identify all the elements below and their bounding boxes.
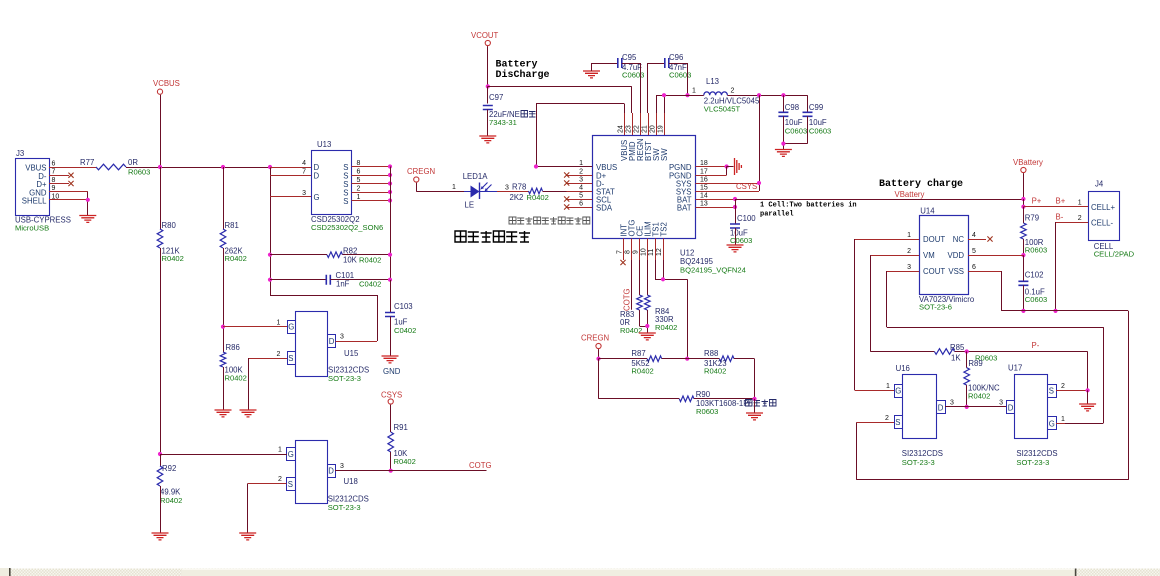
svg-text:R87: R87 <box>631 349 645 358</box>
U14 pin 4 NC no-connect <box>968 239 986 241</box>
svg-text:B+: B+ <box>1056 197 1066 206</box>
svg-text:CELL+: CELL+ <box>1091 203 1116 212</box>
wire U15 drain link <box>270 295 377 297</box>
svg-text:VCBUS: VCBUS <box>153 79 180 88</box>
U12 pin 5 SCL no-connect <box>567 199 593 201</box>
ground R88 R90 <box>746 413 763 420</box>
wire R77 to VCBUS rail <box>126 167 270 169</box>
wire R85 to P- corner <box>955 351 1088 353</box>
wire rail R81 <box>223 167 225 229</box>
svg-text:R0402: R0402 <box>527 193 549 202</box>
scrollbar track <box>0 569 1160 576</box>
wire VDD node to C102 <box>1023 255 1025 281</box>
wire VSS net loop <box>1001 271 1003 311</box>
wire L13 to output node <box>727 95 807 97</box>
junction VBUS pin1 <box>534 164 538 168</box>
junction U13 input <box>268 165 272 169</box>
wire U18 source to ground <box>247 484 249 534</box>
svg-text:13: 13 <box>700 201 708 208</box>
svg-text:2: 2 <box>1078 215 1082 222</box>
svg-text:6: 6 <box>52 161 56 168</box>
svg-text:9: 9 <box>52 185 56 192</box>
wire C97 to ground <box>487 110 489 137</box>
svg-text:R79: R79 <box>1025 214 1039 223</box>
svg-text:S: S <box>288 354 293 363</box>
U12 pin 6 SDA no-connect <box>567 207 593 209</box>
J3 pin 9 GND <box>49 191 88 193</box>
wire cell node to R79 <box>1023 207 1025 223</box>
junction R89 drain net <box>965 405 969 409</box>
svg-text:C0603: C0603 <box>730 236 752 245</box>
svg-text:CSD25302Q2_SON6: CSD25302Q2_SON6 <box>311 223 383 232</box>
wire CE ILIM pins down <box>639 260 641 295</box>
note charge status indicator chinese <box>455 231 466 242</box>
svg-text:3: 3 <box>505 185 509 192</box>
svg-text:1nF: 1nF <box>336 280 350 289</box>
svg-text:MicroUSB: MicroUSB <box>15 224 49 233</box>
svg-text:10: 10 <box>52 193 60 200</box>
svg-text:C0603: C0603 <box>809 127 831 136</box>
wire VBattery stem <box>1023 173 1025 199</box>
wire gnd rail down <box>754 399 756 413</box>
junctions U13 source bus <box>388 164 392 168</box>
svg-text:R0402: R0402 <box>631 367 653 376</box>
svg-text:16: 16 <box>700 177 708 184</box>
U18 pin 2 S <box>248 483 287 485</box>
wire VM to R85 <box>870 255 872 351</box>
svg-text:Battery charge: Battery charge <box>879 178 963 190</box>
svg-text:8: 8 <box>52 177 56 184</box>
junction C96 SW <box>685 93 689 97</box>
svg-text:10: 10 <box>641 248 648 256</box>
svg-text:21: 21 <box>642 125 649 133</box>
U17 pin 2 S <box>1056 390 1088 392</box>
svg-text:R92: R92 <box>162 464 176 473</box>
svg-text:1: 1 <box>1078 200 1082 207</box>
wire R79 to VDD node <box>1023 239 1025 255</box>
svg-text:R0402: R0402 <box>162 254 184 263</box>
svg-text:D: D <box>314 172 320 181</box>
svg-text:3: 3 <box>302 190 306 197</box>
wire VBUS riser to pin 24 <box>536 104 538 167</box>
svg-text:1K: 1K <box>951 354 961 363</box>
junction R82 left <box>268 253 272 257</box>
svg-text:2: 2 <box>579 169 583 176</box>
svg-text:R0402: R0402 <box>160 496 182 505</box>
svg-text:4: 4 <box>579 185 583 192</box>
svg-text:CSYS: CSYS <box>736 182 757 191</box>
svg-text:R77: R77 <box>80 158 94 167</box>
junction B- VSS <box>1053 309 1057 313</box>
junction TS2 <box>661 277 665 281</box>
wire C102 to VSS net <box>1023 285 1025 311</box>
U12 pin 16 SYS <box>696 183 760 185</box>
svg-text:CREGN: CREGN <box>581 334 609 343</box>
U14 pin 1 DOUT <box>855 239 919 241</box>
svg-text:U14: U14 <box>920 207 935 216</box>
wire bus to C103 <box>390 280 392 313</box>
svg-text:C98: C98 <box>785 103 799 112</box>
svg-text:R0402: R0402 <box>359 256 381 265</box>
svg-text:R81: R81 <box>225 221 239 230</box>
svg-text:C97: C97 <box>489 93 503 102</box>
U12 pin 4 STAT <box>567 191 593 193</box>
svg-text:LE: LE <box>465 201 475 210</box>
svg-text:D: D <box>328 467 334 476</box>
junction J3 shell <box>86 198 90 202</box>
svg-text:S: S <box>288 480 293 489</box>
svg-text:DisCharge: DisCharge <box>496 69 550 81</box>
svg-text:3: 3 <box>340 463 344 470</box>
junction C101 right <box>388 278 392 282</box>
wire R83 R84 to ground <box>639 310 641 326</box>
svg-text:U17: U17 <box>1008 364 1022 373</box>
U13 pin 4 D <box>270 167 311 169</box>
svg-text:1: 1 <box>357 194 361 201</box>
svg-text:U18: U18 <box>344 477 358 486</box>
svg-text:2: 2 <box>1061 383 1065 390</box>
wire VBattery to cell node <box>1023 199 1025 207</box>
svg-text:U15: U15 <box>344 349 359 358</box>
junction SYS pin16 <box>757 181 761 185</box>
wire U17 source to ground <box>1087 390 1089 404</box>
svg-text:3: 3 <box>579 177 583 184</box>
svg-text:1: 1 <box>579 160 583 167</box>
J4 pin 1 CELL+ <box>1023 206 1088 208</box>
svg-text:G: G <box>288 450 294 459</box>
svg-text:2K2: 2K2 <box>510 193 524 202</box>
svg-text:5: 5 <box>579 193 583 200</box>
svg-text:C0603: C0603 <box>1025 295 1047 304</box>
ground R83 R84 <box>639 333 656 340</box>
svg-text:7: 7 <box>617 250 624 254</box>
svg-text:S: S <box>343 197 348 206</box>
svg-text:R0603: R0603 <box>696 407 718 416</box>
wire VCBUS stem <box>160 95 162 167</box>
U17 pin 1 G <box>1056 423 1065 425</box>
svg-text:R86: R86 <box>226 343 240 352</box>
svg-text:17: 17 <box>700 169 708 176</box>
svg-text:G: G <box>1049 420 1055 429</box>
svg-text:CSYS: CSYS <box>381 391 402 400</box>
junction VBattery <box>1021 197 1025 201</box>
svg-text:3: 3 <box>907 264 911 271</box>
svg-text:BQ24195_VQFN24: BQ24195_VQFN24 <box>680 266 746 275</box>
svg-text:6: 6 <box>579 201 583 208</box>
svg-text:6: 6 <box>972 264 976 271</box>
U14 pin 6 VSS <box>968 271 1001 273</box>
svg-text:1 Cell:Two batteries in: 1 Cell:Two batteries in <box>760 202 857 210</box>
wire gnd to C95 <box>592 63 618 65</box>
svg-text:1: 1 <box>278 447 282 454</box>
svg-text:19: 19 <box>658 125 665 133</box>
svg-text:TS2: TS2 <box>660 222 669 236</box>
note led color chinese <box>509 217 516 224</box>
ground R92 <box>152 533 169 540</box>
svg-text:R89: R89 <box>968 359 982 368</box>
svg-text:7: 7 <box>302 169 306 176</box>
resistor R90 103KT1608-1P thermistor R0603 <box>679 396 694 402</box>
svg-text:G: G <box>314 193 320 202</box>
svg-text:J3: J3 <box>16 149 24 158</box>
svg-text:NC: NC <box>953 235 965 244</box>
wire C101 left <box>270 279 327 281</box>
svg-text:SOT-23-6: SOT-23-6 <box>919 303 952 312</box>
wire U13 source bus <box>390 167 392 281</box>
svg-text:C102: C102 <box>1025 271 1044 280</box>
wire R82 left <box>270 254 327 256</box>
wire COUT loop to U17 gate <box>886 271 888 327</box>
svg-text:6: 6 <box>357 169 361 176</box>
junction R82 right <box>388 253 392 257</box>
ic U12 BQ24195 VQFN24 body <box>593 136 696 239</box>
wire CREGN stem lower <box>598 349 600 359</box>
capacitor C98 10uF C0603 <box>783 95 785 112</box>
svg-text:COTG: COTG <box>469 461 492 470</box>
svg-text:8: 8 <box>625 250 632 254</box>
wire R81 down to U15 gate node <box>223 248 225 352</box>
svg-text:LED1A: LED1A <box>463 172 489 181</box>
U12 pin 14 BAT <box>696 199 736 201</box>
svg-text:R80: R80 <box>162 221 177 230</box>
svg-text:CELL-: CELL- <box>1091 219 1114 228</box>
junction C98 bottom <box>781 142 785 146</box>
ground C97 <box>479 136 496 143</box>
J4 pin 2 CELL- <box>1056 222 1089 224</box>
svg-text:C96: C96 <box>669 53 683 62</box>
svg-text:12: 12 <box>656 248 663 256</box>
svg-text:C0603: C0603 <box>669 71 691 80</box>
J3 pin 6 VBUS <box>49 167 96 169</box>
U12 pin 18 PGND <box>696 166 727 168</box>
junction VCBUS <box>158 165 162 169</box>
ground J3 <box>79 216 96 223</box>
svg-text:R0402: R0402 <box>394 457 416 466</box>
svg-text:24: 24 <box>618 125 625 133</box>
wire BAT to C100 <box>735 207 737 224</box>
junction PGND <box>725 164 729 168</box>
svg-text:P+: P+ <box>1032 197 1042 206</box>
svg-text:2: 2 <box>357 186 361 193</box>
U12 top pins 24-19 <box>624 113 626 135</box>
capacitor C99 10uF C0603 <box>807 95 809 112</box>
wire BTST to C96 <box>647 63 649 113</box>
svg-text:D: D <box>1008 403 1014 412</box>
wire U13 left rail <box>270 167 272 295</box>
ground R86 <box>215 410 232 417</box>
junction C102 bottom <box>1021 309 1025 313</box>
wire LED cathode to R78 <box>497 191 529 193</box>
svg-text:G: G <box>288 323 294 332</box>
svg-text:Battery: Battery <box>496 60 538 71</box>
svg-text:R0402: R0402 <box>968 392 990 401</box>
U13 pin 7 D <box>270 175 311 177</box>
ground C100 <box>727 245 744 252</box>
J3 pin 8 D+ no-connect <box>49 183 69 185</box>
svg-text:SOT-23-3: SOT-23-3 <box>328 503 361 512</box>
junction BAT13 <box>733 205 737 209</box>
svg-text:7343-31: 7343-31 <box>489 118 517 127</box>
svg-text:R0402: R0402 <box>225 254 247 263</box>
svg-text:R90: R90 <box>696 390 711 399</box>
J3 pin 10 SHELL <box>49 199 88 201</box>
svg-text:L13: L13 <box>706 77 719 86</box>
junction TS R87 R88 <box>685 357 689 361</box>
svg-text:VBattery: VBattery <box>895 190 925 199</box>
ground C95 <box>583 71 600 78</box>
U12 pin 1 VBUS <box>536 166 592 168</box>
svg-text:DOUT: DOUT <box>923 235 945 244</box>
svg-text:1: 1 <box>452 184 456 191</box>
svg-text:15: 15 <box>700 185 708 192</box>
wire R89 top <box>966 352 968 368</box>
U18 pin 3 D wire to COTG <box>335 470 487 472</box>
svg-text:S: S <box>895 418 900 427</box>
svg-text:C0402: C0402 <box>359 280 381 289</box>
U12 pin 3 D- no-connect <box>567 183 593 185</box>
svg-text:S: S <box>1049 387 1054 396</box>
svg-text:SOT-23-3: SOT-23-3 <box>1016 458 1049 467</box>
svg-text:G: G <box>895 387 901 396</box>
svg-text:U16: U16 <box>896 364 910 373</box>
svg-text:U13: U13 <box>317 140 331 149</box>
U16 pin 3 D wire <box>945 406 1007 408</box>
svg-text:B-: B- <box>1056 213 1064 222</box>
wire CREGN to LED <box>416 183 418 192</box>
svg-text:SW: SW <box>660 148 669 161</box>
junction R81 top <box>221 165 225 169</box>
svg-text:8: 8 <box>357 160 361 167</box>
svg-text:10K: 10K <box>343 256 358 265</box>
U14 pin 2 VM <box>870 255 919 257</box>
junction VDD node <box>1021 253 1025 257</box>
wire R87 to TS node <box>662 358 688 360</box>
svg-text:R88: R88 <box>704 349 718 358</box>
junction VCOUT <box>486 84 490 88</box>
svg-text:C0603: C0603 <box>622 71 644 80</box>
U12 pin 2 D+ no-connect <box>567 175 593 177</box>
U13 pin 3 G <box>270 196 311 198</box>
wire TS1 TS2 join <box>655 260 657 279</box>
svg-text:5: 5 <box>972 248 976 255</box>
U15 pin 3 D <box>336 341 378 343</box>
wire R92 to ground <box>160 486 162 533</box>
junction cell node <box>1021 205 1025 209</box>
ground PGND rotated <box>727 166 734 168</box>
svg-text:VCOUT: VCOUT <box>471 31 499 40</box>
svg-text:VDD: VDD <box>948 251 965 260</box>
wire R82 right <box>343 254 391 256</box>
svg-text:SOT-23-3: SOT-23-3 <box>328 374 361 383</box>
wire OTG net with label COTG <box>631 260 633 310</box>
junction U18 gate node <box>158 452 162 456</box>
junction CREGN R87 <box>596 357 600 361</box>
junction SW pin19 <box>662 93 666 97</box>
svg-text:2: 2 <box>885 415 889 422</box>
svg-text:VLC5045T: VLC5045T <box>704 105 741 114</box>
wire TS node down <box>687 279 689 358</box>
ground C98 C99 <box>775 150 792 157</box>
svg-text:R0402: R0402 <box>704 367 726 376</box>
svg-text:7: 7 <box>52 169 56 176</box>
junction U17 source <box>1086 388 1090 392</box>
svg-text:SOT-23-3: SOT-23-3 <box>902 458 935 467</box>
svg-text:R0402: R0402 <box>655 323 677 332</box>
svg-text:GND: GND <box>383 367 401 376</box>
J3 pin 7 D- no-connect <box>49 175 69 177</box>
svg-text:4: 4 <box>972 232 976 239</box>
wire R80 down to U18 gate node <box>160 248 162 454</box>
wire J3 GND to SHELL to ground <box>87 192 89 216</box>
U12 pin 15 SYS <box>696 191 760 193</box>
svg-text:COTG: COTG <box>623 288 632 311</box>
svg-text:parallel: parallel <box>760 211 794 219</box>
wire VCOUT to PMID <box>488 86 632 88</box>
resistor R84 330R R0402 <box>645 295 651 310</box>
svg-text:1: 1 <box>886 383 890 390</box>
svg-text:14: 14 <box>700 193 708 200</box>
svg-text:9: 9 <box>633 250 640 254</box>
svg-text:P-: P- <box>1032 341 1040 350</box>
junction SYS rail top <box>757 93 761 97</box>
ground U17 source <box>1079 404 1096 411</box>
U14 pin 3 COUT <box>887 271 919 273</box>
wire SYS rail <box>759 95 761 191</box>
wire CREGN down to R90 <box>598 359 600 399</box>
wire C96 to SW node <box>669 63 688 65</box>
svg-text:2: 2 <box>277 351 281 358</box>
wire PGND pins join <box>726 167 728 176</box>
wire BAT to VBattery <box>735 199 1023 201</box>
svg-text:3: 3 <box>340 334 344 341</box>
wire VCOUT stem <box>487 46 489 86</box>
svg-text:2: 2 <box>731 88 735 95</box>
svg-text:SDA: SDA <box>596 204 613 213</box>
svg-text:SI2312CDS: SI2312CDS <box>902 449 943 458</box>
svg-text:5: 5 <box>357 177 361 184</box>
wire DOUT to U16 gate <box>854 239 856 390</box>
U16 pin 2 S <box>857 422 894 424</box>
U14 pin 5 VDD <box>968 255 1023 257</box>
U13 pin 8 S <box>352 166 391 168</box>
svg-text:22: 22 <box>634 125 641 133</box>
svg-text:R0402: R0402 <box>225 374 247 383</box>
svg-text:R78: R78 <box>512 183 526 192</box>
wire SW pins to L13 <box>656 95 658 113</box>
svg-text:VSS: VSS <box>948 267 964 276</box>
wire B- rail <box>1055 222 1057 311</box>
svg-text:20: 20 <box>650 125 657 133</box>
svg-text:C95: C95 <box>622 53 637 62</box>
junction R91 COTG <box>389 469 393 473</box>
junction R90 gnd rail <box>752 397 756 401</box>
junction C101 left <box>268 278 272 282</box>
U13 pin 1 S <box>352 200 391 202</box>
junction U15 gate node <box>221 325 225 329</box>
svg-text:23: 23 <box>626 125 633 133</box>
svg-text:4: 4 <box>302 160 306 167</box>
wire R91 to COTG net <box>390 452 392 471</box>
wire R89 bottom <box>966 385 968 407</box>
svg-text:R0603: R0603 <box>128 168 150 177</box>
svg-text:3: 3 <box>999 400 1003 407</box>
svg-text:11: 11 <box>648 249 655 256</box>
wire R86 to ground <box>223 367 225 410</box>
svg-text:BAT: BAT <box>677 204 692 213</box>
svg-text:SHELL: SHELL <box>22 196 47 205</box>
U15 pin 2 S <box>248 358 287 360</box>
svg-text:R0603: R0603 <box>1025 246 1047 255</box>
